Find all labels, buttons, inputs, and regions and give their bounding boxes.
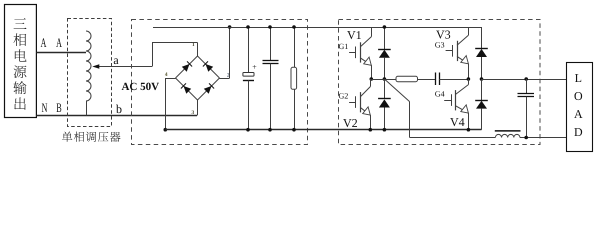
- bridge diode D2 (right-top arm): [206, 64, 214, 72]
- transistor V1 (IGBT): [349, 52, 356, 54]
- inductor L1 (output filter): [495, 134, 520, 137]
- load letter A: [574, 110, 582, 118]
- load box: [567, 63, 593, 152]
- wire N/b: [36, 115, 197, 117]
- resistor R2 (series): [396, 76, 418, 81]
- wire right midpoint to load (top): [482, 79, 567, 81]
- bridge pin label 4: [165, 72, 168, 76]
- label A (transformer input): [56, 38, 62, 47]
- node midpoint left leg: [370, 77, 374, 81]
- diode VD3 (freewheeling, cathode up): [475, 48, 488, 50]
- bridge diode D4 (bottom-right arm): [204, 86, 212, 94]
- transistor V4 (IGBT): [444, 100, 451, 102]
- dashed box: inverter: [339, 20, 541, 145]
- rectifier bridge frame: [176, 56, 198, 78]
- label V1: [347, 31, 355, 39]
- three-phase source box 三相电源输出: [5, 5, 37, 118]
- label b: [116, 105, 122, 113]
- label N: [42, 103, 47, 112]
- capacitor C4 (output filter): [526, 79, 528, 93]
- wire phase A: [36, 52, 86, 54]
- diode VD1 (freewheeling, cathode up): [378, 49, 391, 51]
- wire top rail corner down to diode V3: [481, 27, 483, 48]
- bridge diode D1 (left-top arm): [182, 64, 190, 72]
- junction top-rail bridge: [228, 25, 232, 29]
- diode VD2 (freewheeling, cathode up): [378, 98, 391, 100]
- label A: [41, 38, 47, 47]
- node output cap top: [524, 77, 528, 81]
- bridge pin label 1: [192, 42, 194, 46]
- wire bridge right (+) up to top rail: [220, 78, 230, 80]
- load letter D: [574, 128, 582, 136]
- dashed box: adjustable DC source: [132, 20, 308, 145]
- wire inductor to load (bottom): [520, 137, 567, 139]
- label + of C1: [253, 65, 257, 69]
- gate label G1: [339, 44, 344, 49]
- label V2: [343, 119, 351, 127]
- wire bridge left (-) down to bottom rail: [165, 78, 175, 80]
- bridge diode D3 (bottom-left arm): [184, 86, 192, 94]
- wire winding bottom to b: [86, 101, 88, 115]
- wire bridge bottom to b-wire: [197, 100, 199, 115]
- diode VD4 (freewheeling, cathode up): [475, 100, 488, 102]
- transformer T1 winding: [86, 31, 91, 101]
- label AC 50V: [122, 83, 130, 90]
- capacitor C2: [270, 27, 272, 60]
- wire C3 to right midpoint: [439, 79, 468, 81]
- label V4: [450, 118, 458, 126]
- wire diode V4 branch: [481, 79, 483, 100]
- wire diode V1 branch top: [384, 27, 386, 49]
- wire DC+ top rail: [153, 27, 482, 29]
- load letter O: [574, 92, 582, 100]
- wire R2 to C3: [418, 79, 436, 81]
- capacitor C1 (electrolytic): [248, 27, 250, 72]
- wire output bottom run: [410, 137, 496, 139]
- node midpoint right leg: [467, 77, 471, 81]
- gate label G2: [339, 93, 344, 98]
- wire left midpoint to output (diagonal): [384, 79, 409, 102]
- bridge pin label 3: [192, 110, 194, 114]
- transistor V2 (IGBT): [349, 102, 356, 104]
- gate label G3: [435, 42, 440, 47]
- label a: [114, 58, 119, 64]
- label 单相调压器: [62, 132, 72, 142]
- resistor R1 (bleeder): [294, 27, 296, 67]
- single-phase voltage regulator dashed box: [68, 19, 112, 127]
- label V3: [436, 31, 444, 39]
- variac tap arrow to node a: [98, 66, 153, 68]
- bridge pin label 2: [227, 73, 229, 77]
- junctions bottom rail left leg: [369, 128, 373, 132]
- node output cap bottom: [524, 136, 528, 140]
- label B: [57, 103, 62, 112]
- transistor V3 (IGBT): [446, 50, 453, 52]
- wire diode V2 branch: [384, 79, 386, 99]
- junction bottom-rail left: [164, 128, 168, 132]
- wire node a to bridge AC top: [152, 43, 154, 67]
- capacitor C3 (series): [435, 73, 437, 86]
- junction bottom rail right leg: [467, 128, 471, 132]
- wire DC- bottom rail: [165, 129, 481, 131]
- load letter L: [575, 74, 581, 82]
- gate label G4: [435, 91, 440, 96]
